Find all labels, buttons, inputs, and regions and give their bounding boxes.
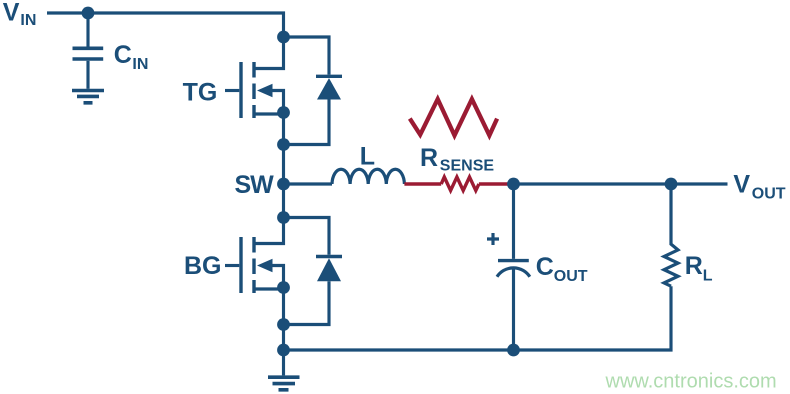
wire RL node to VOUT — [671, 182, 728, 185]
wire CIN bottom lead — [86, 61, 89, 89]
plus sign — [487, 233, 499, 245]
cathode bar — [316, 75, 342, 78]
wire anode to tap — [284, 281, 330, 324]
transistor Q1 TG — [225, 37, 284, 118]
gate bar — [239, 62, 242, 118]
svg-text:IN: IN — [20, 12, 36, 29]
node COUT top — [507, 178, 520, 191]
svg-text:C: C — [114, 41, 132, 69]
svg-text:OUT: OUT — [554, 268, 588, 285]
wire COUT bottom lead — [512, 269, 515, 351]
drain stub — [254, 218, 284, 244]
svg-text:V: V — [733, 170, 750, 198]
svg-text:www.cntronics.com: www.cntronics.com — [605, 371, 777, 393]
wire SW to BG drain — [282, 184, 285, 218]
node diode tap — [277, 138, 290, 151]
node RL top — [665, 178, 678, 191]
wire tap to SW — [282, 145, 285, 185]
capacitor COUT plate — [498, 259, 529, 262]
diode D2 (BG body diode) — [284, 218, 343, 325]
gate lead — [225, 89, 239, 92]
resistor RL — [664, 184, 678, 286]
svg-text:L: L — [360, 143, 375, 171]
svg-text:L: L — [703, 267, 713, 284]
gate lead — [225, 264, 239, 267]
capacitor COUT curved plate — [497, 268, 530, 277]
transistor Q2 BG — [225, 218, 284, 294]
ground CIN — [72, 91, 104, 103]
svg-text:R: R — [685, 252, 703, 280]
svg-text:R: R — [420, 144, 438, 172]
body arrow wire — [272, 266, 284, 288]
wire red L to RSENSE — [404, 182, 441, 185]
diode D1 (TG body diode) — [284, 37, 343, 145]
wire ground stub — [282, 350, 285, 375]
wire COUT top lead — [512, 184, 515, 259]
body arrow head — [257, 84, 273, 98]
node input / CIN tap — [82, 7, 95, 20]
wire CIN top lead — [86, 13, 89, 47]
svg-text:SENSE: SENSE — [440, 157, 495, 174]
body arrow wire — [272, 91, 284, 113]
svg-text:BG: BG — [184, 252, 222, 280]
node BG diode tap — [277, 318, 290, 331]
source stub — [254, 112, 284, 115]
ground rail and RL return — [284, 286, 672, 350]
node TG drain — [277, 31, 290, 44]
svg-text:V: V — [3, 0, 20, 26]
node TG source — [277, 106, 290, 119]
wire input rail — [47, 13, 284, 37]
anode triangle — [317, 258, 341, 281]
svg-text:IN: IN — [132, 56, 148, 73]
wire anode to tap — [284, 100, 330, 145]
gate bar — [239, 237, 242, 293]
drain stub — [254, 37, 284, 69]
resistor RSENSE — [441, 177, 479, 191]
node BG source — [277, 281, 290, 294]
wire BG source to diode tap — [282, 288, 285, 325]
wire SW to inductor — [284, 182, 333, 185]
node COUT bottom — [507, 344, 520, 357]
svg-text:SW: SW — [235, 171, 275, 199]
node SW — [277, 178, 290, 191]
wire top to cathode — [284, 218, 330, 255]
wire tap to ground rail — [282, 325, 285, 351]
channel segments — [252, 237, 255, 293]
cathode bar — [316, 255, 342, 258]
wire COUT node to RL node — [514, 182, 672, 185]
current sense squiggle — [410, 99, 497, 135]
wire TG source to diode tap — [282, 113, 285, 145]
svg-text:TG: TG — [183, 78, 218, 106]
svg-text:OUT: OUT — [752, 186, 786, 203]
anode triangle — [317, 78, 341, 99]
svg-text:C: C — [536, 253, 554, 281]
ground main — [268, 377, 300, 390]
channel segments — [252, 62, 255, 118]
node ground rail left — [277, 344, 290, 357]
capacitor CIN — [73, 48, 104, 59]
node BG drain — [277, 211, 290, 224]
source stub — [254, 287, 284, 290]
wire red RSENSE to COUT node — [479, 182, 514, 185]
inductor L — [332, 169, 404, 184]
body arrow head — [257, 259, 273, 273]
wire top to cathode — [284, 37, 330, 75]
